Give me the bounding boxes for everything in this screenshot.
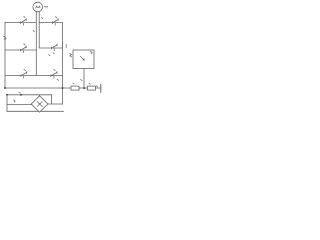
contact K4 (row2 right, blade) [52,44,58,49]
resistor R2 label [89,83,90,84]
relay box internal arrow [80,56,84,60]
wire (motor left lead, vertical) [35,12,37,51]
contact K4 tick [53,49,55,51]
contact K5 tick [23,76,25,78]
label 1 (tick right of right rail) [65,44,67,47]
terminal bar (right end of bus A) [100,84,102,92]
relay coil lead (box to bus A) [83,69,85,89]
label 1 (leader dash right of motor) [44,6,48,8]
wire (left rail vertical) [4,23,6,89]
node (left rail to bus A) [4,87,6,89]
wire (right rail vertical) [62,23,64,105]
wire (motor right lead, vertical) [38,12,40,48]
contact K6 label [54,69,55,70]
label (tick left of lead) [81,79,82,80]
label 2 (tick right of center conductor) [49,55,50,56]
contact K3 (row2 left, blade) [21,46,27,51]
wire (bus A horizontal) [5,87,101,89]
resistor R2 (on bus A) [88,86,96,90]
terminal tick [96,86,97,87]
contact K2 tick [54,23,56,25]
contact K1 tick [22,23,24,25]
label 9 (above left branch) [14,100,16,102]
label 9 (above bus B junction) [19,92,20,93]
wire (row1 left segment) [5,22,36,24]
wire (bus B right end drop) [51,95,53,104]
bridge rectifier VD1 (diamond) [31,96,48,112]
wire (row2 right segment) [39,47,62,49]
contact K3 label [24,44,26,45]
wire (row3 left segment) [5,75,63,77]
wire (bottom bus) [7,110,64,112]
label 7 (tick right of leads) [42,17,43,18]
contact K6 (row3 right, blade) [51,72,57,77]
node (bus B junction) [20,94,22,96]
wire (bridge left vertex branch) [7,104,31,106]
contact K1 label [24,16,26,17]
wire (bridge top vertex to bus B) [39,95,41,96]
node (lead on bus A) [83,87,85,89]
contact K3 tick [22,51,24,53]
label 9 (tick left of right rail above bus A) [57,79,58,80]
node (bus B left end) [6,94,8,96]
label 4 (zigzag left of box) [70,53,72,57]
relay box label 8 [90,51,92,53]
node (right rail on bus A) [62,87,64,89]
motor M1 (circle symbol top center) [33,2,43,12]
contact K1 (row1 left, blade) [21,19,27,24]
contact K4 label [53,53,54,54]
wire (center single conductor down) [35,50,37,76]
motor M1 internal mark [36,6,41,8]
relay box U1 [73,50,94,69]
contact K5 label [24,69,26,70]
wire (row2 left segment) [5,49,36,51]
bridge VD1 internal marks [37,101,42,106]
wire (bus B horizontal) [7,94,52,96]
label 7 (tick left of leads) [33,30,34,32]
contact K6 tick [53,76,55,78]
resistor R1 (on bus A) [71,86,79,90]
label 5 (mark on left rail) [4,36,7,39]
wire (row1 right segment from motor lead) [39,22,62,24]
contact K5 (row3 left, blade) [21,72,27,77]
contact K2 (row1 right, blade) [53,19,59,24]
resistor R1 label [73,83,74,84]
wire (bridge right vertex to right rail) [48,103,63,105]
contact K2 label [55,17,56,18]
wire (left riser vertical) [6,95,8,112]
